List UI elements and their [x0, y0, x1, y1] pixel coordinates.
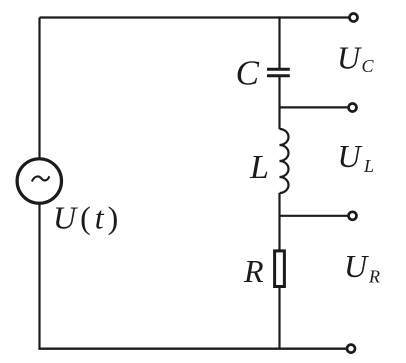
AC source tilde symbol	[32, 176, 50, 181]
wire branch below resistor	[278, 287, 280, 349]
svg-text:C: C	[236, 54, 260, 93]
capacitor C1 bottom plate	[267, 74, 290, 77]
svg-text:U: U	[337, 39, 362, 75]
svg-text:U(t): U(t)	[53, 200, 118, 236]
wire left vertical	[38, 18, 40, 349]
resistor R1 body	[275, 251, 285, 287]
wire top horizontal	[40, 16, 353, 18]
svg-text:C: C	[362, 56, 375, 76]
inductor L1 coil	[280, 129, 289, 193]
terminal UL lower	[349, 212, 357, 220]
terminal UC lower	[349, 104, 357, 112]
svg-text:U: U	[338, 138, 363, 174]
svg-text:L: L	[249, 149, 269, 186]
terminal top right	[350, 14, 358, 22]
capacitor C1 top plate	[267, 68, 290, 71]
svg-text:R: R	[368, 266, 380, 286]
svg-text:R: R	[243, 253, 264, 289]
wire branch between inductor and resistor	[278, 193, 280, 250]
terminal bottom right	[347, 345, 355, 353]
wire bottom horizontal	[38, 348, 351, 350]
wire branch between capacitor and inductor	[278, 77, 280, 129]
node junction wire to UL terminal	[280, 215, 353, 217]
AC source U(t) circle	[17, 159, 61, 203]
svg-text:L: L	[363, 156, 374, 176]
wire right branch upper segment	[278, 16, 280, 69]
node junction wire to UC terminal	[280, 106, 353, 108]
svg-text:U: U	[344, 248, 369, 284]
